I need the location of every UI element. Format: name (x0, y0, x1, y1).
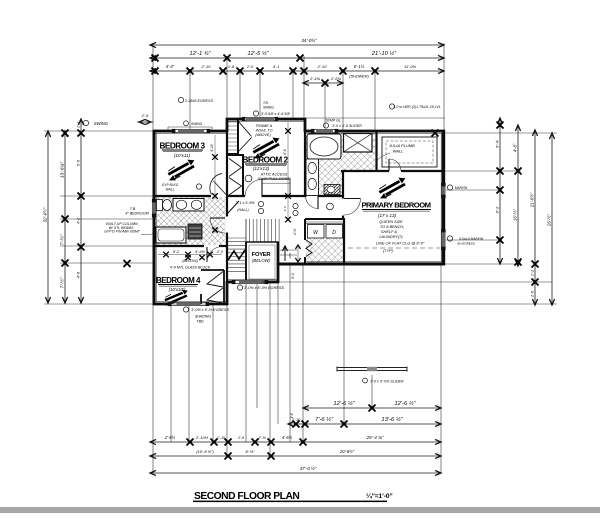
FOYER label (252, 252, 272, 263)
interior wall: foyer west x=246 (245, 242, 247, 282)
page bottom edge shadow (0, 507, 600, 513)
svg-text:3-0 w HDR (2)1.75x11.25 LVL: 3-0 w HDR (2)1.75x11.25 LVL (393, 105, 441, 109)
primary bath shower (344, 134, 373, 153)
svg-text:SWING: SWING (191, 122, 203, 126)
svg-text:2’-0: 2’-0 (216, 250, 223, 254)
svg-text:3’-0½ x 5’-½ EGRESS: 3’-0½ x 5’-½ EGRESS (191, 308, 229, 312)
svg-text:1’-4: 1’-4 (77, 122, 81, 128)
svg-text:7’-6 ½”: 7’-6 ½” (315, 416, 334, 423)
built-up column note (104, 222, 153, 235)
exterior wall inner face lines (155, 132, 227, 134)
bedroom3 ceiling fan arrows icon (165, 158, 199, 183)
svg-text:25’-4 ¾”: 25’-4 ¾” (366, 435, 384, 440)
interior wall: laundry north y=219 (305, 218, 345, 220)
svg-text:5’-½: 5’-½ (495, 139, 500, 147)
svg-text:BEDROOM 4: BEDROOM 4 (156, 276, 201, 285)
laundry bifold door (306, 240, 312, 257)
svg-text:6’-1½: 6’-1½ (354, 64, 365, 69)
svg-text:¼”=1’-0”: ¼”=1’-0” (366, 492, 393, 500)
bath2 door leaf and swing (210, 218, 225, 233)
dimension row top second (150, 50, 444, 62)
stair upper run treads (vertical lines) (250, 219, 280, 242)
bedroom3 closet bifold chevron doors (229, 159, 242, 196)
dormer label (363, 378, 404, 383)
dimension column left inner (77, 119, 85, 303)
svg-text:ATTIC ACCESS: ATTIC ACCESS (260, 173, 288, 177)
PRIMARY BEDROOM label (361, 201, 431, 219)
svg-text:4’-6: 4’-6 (77, 271, 81, 278)
primary bath door leaf and swing (306, 196, 319, 209)
dormer window on roof below (337, 367, 407, 372)
dimension row bottom A (12-6 / 12-6) (303, 400, 441, 412)
extra tick on left extension y=263 (124, 260, 131, 267)
svg-text:7’-½”: 7’-½” (59, 234, 66, 245)
bedroom2 door leaf and swing (245, 180, 262, 197)
egress label below bedroom4 (183, 307, 229, 324)
bedroom3 door leaf and swing (210, 174, 226, 195)
bath2 toilet (157, 200, 172, 211)
small stacked ticks left of row B (290, 413, 300, 427)
exterior wall: bedroom3 top (window gap) (153, 130, 173, 133)
washer box (308, 225, 325, 239)
svg-text:20’-8½”: 20’-8½” (339, 449, 355, 454)
primary bath vanity with two sinks (306, 159, 319, 196)
svg-text:16’-½”: 16’-½” (513, 208, 518, 220)
bath window above tub (311, 129, 338, 133)
svg-text:GYP’D FIN ABV BSMT: GYP’D FIN ABV BSMT (104, 230, 141, 234)
svg-text:SH EGRESS: SH EGRESS (457, 242, 475, 246)
exterior wall: jog bedroom4 east (226, 281, 229, 305)
svg-text:SECOND FLOOR PLAN: SECOND FLOOR PLAN (194, 491, 299, 502)
svg-text:4’-6½: 4’-6½ (195, 250, 205, 254)
exterior wall: jog bed2/bath (304, 118, 307, 132)
dimension row bottom E overall 37-0 (150, 465, 441, 476)
primary bath tiled floor hatch upper (306, 133, 375, 171)
primary bedroom ceiling fan arrows icon (376, 176, 410, 201)
interior wall: bed3 closet east x=243 (242, 154, 244, 197)
interior wall: bed2 closet east x=238 (237, 119, 239, 154)
svg-text:1’-2: 1’-2 (531, 270, 535, 276)
window label above bedroom2 (253, 101, 290, 116)
corridor circled outlet symbols (258, 201, 333, 215)
primary bedroom notes (379, 219, 404, 239)
BEDROOM 3 label (159, 142, 205, 159)
exterior wall: bath+wic top (window gap) (304, 130, 312, 133)
svg-text:(HALL): (HALL) (237, 208, 248, 212)
svg-text:2’-10½: 2’-10½ (195, 435, 209, 440)
left side notes (125, 207, 149, 216)
dryer box (326, 225, 343, 239)
title: SECOND FLOOR PLAN (193, 491, 393, 502)
stair lower run treads (horizontal lines) (228, 238, 247, 271)
interior wall: bed2 closet bottom (227, 153, 239, 155)
exterior wall: jog bed3/bed2 (226, 118, 229, 132)
dimension row bottom C (many ticks) (150, 435, 441, 446)
right window label 2 (447, 236, 483, 246)
svg-text:34’-0½”: 34’-0½” (301, 37, 317, 43)
laundry shelf line (306, 221, 343, 223)
bedroom2 attic access note (257, 173, 291, 182)
bedroom2 closet shelf rungs (228, 122, 237, 150)
stair landing divider (245, 219, 247, 242)
wic shelving box (382, 137, 437, 167)
dimension column left outer 32-0 (43, 131, 51, 303)
svg-text:11’-0½: 11’-0½ (404, 64, 417, 69)
bedroom2 closet double doors (239, 122, 252, 152)
svg-text:2’-6: 2’-6 (237, 436, 245, 440)
interior wall: bath leg south y=196 (door gap) (305, 195, 307, 197)
svg-text:MARVIN: MARVIN (455, 186, 468, 190)
svg-text:8’-6: 8’-6 (283, 149, 287, 155)
svg-text:TBD: TBD (196, 320, 204, 324)
svg-text:3’-6: 3’-6 (290, 413, 294, 419)
primary bath tub (307, 134, 341, 159)
extension lines: thin construction/extension lines (44, 43, 557, 473)
header label above wic (389, 104, 440, 109)
bedroom4 window (168, 302, 209, 306)
swing label above bedroom3 window (184, 121, 203, 126)
svg-text:GYP BLKG: GYP BLKG (162, 183, 179, 187)
svg-text:4’-6”: 4’-6” (513, 143, 518, 152)
vaulted ceiling break dashed line (348, 247, 440, 249)
svg-text:2’-6: 2’-6 (141, 113, 149, 118)
svg-text:PRIMARY BEDROOM: PRIMARY BEDROOM (361, 201, 430, 210)
svg-text:5’-2: 5’-2 (173, 250, 180, 254)
bath2 tub (156, 227, 186, 243)
flat ceiling note (376, 241, 425, 254)
primary bedroom east window 1 (441, 183, 445, 198)
svg-text:SWING: SWING (263, 105, 274, 109)
bath2 glass block window on left wall (152, 199, 156, 217)
svg-text:2’-0: 2’-0 (246, 65, 254, 69)
interior wall: laundry east x=344 (343, 219, 345, 264)
interior wall: bed2/bath x=305 (304, 131, 306, 197)
svg-text:2-2646 EGRESS: 2-2646 EGRESS (184, 99, 213, 103)
svg-text:14R: 14R (288, 252, 292, 258)
bedroom2 frame note (255, 124, 272, 137)
interior wall: wic west x=376 (375, 131, 377, 171)
bath2 tiled floor hatch (156, 197, 226, 245)
primary bath tiled floor hatch lower leg (306, 170, 342, 196)
svg-text:4” BEDROOM: 4” BEDROOM (125, 212, 149, 216)
bedroom2 window (242, 117, 278, 121)
svg-text:2’-10: 2’-10 (201, 64, 212, 69)
svg-text:5’-0: 5’-0 (291, 273, 295, 279)
svg-text:4’-2: 4’-2 (77, 217, 81, 224)
svg-text:(10’x11): (10’x11) (174, 153, 191, 158)
exterior wall: foyer south (egress window gaps) (226, 281, 233, 284)
primary bedroom east window 2 (441, 229, 445, 250)
svg-text:TEMP GL: TEMP GL (325, 119, 341, 123)
bedroom3 notes (162, 183, 202, 192)
bedroom4 ceiling fan arrows icon (163, 289, 190, 307)
svg-text:12’-6 ½”: 12’-6 ½” (333, 400, 355, 407)
svg-text:LAUNDRY(?): LAUNDRY(?) (379, 234, 403, 239)
exterior wall: bedroom4 bottom (window gap) (153, 303, 169, 306)
svg-text:3’-0 x 5’-0½ SLIDER: 3’-0 x 5’-0½ SLIDER (370, 380, 404, 384)
svg-text:(10’-8 ½”): (10’-8 ½”) (196, 449, 214, 454)
foyer open shaft box (246, 242, 278, 282)
svg-text:12’-6 ½”: 12’-6 ½” (394, 400, 416, 407)
svg-text:13’-6 ½”: 13’-6 ½” (381, 416, 403, 423)
dimension column right 3 (530, 130, 539, 305)
bath2 small marks (185, 255, 204, 260)
dimension row top fourth partial (303, 76, 343, 87)
svg-text:32’-0½”: 32’-0½” (43, 207, 48, 222)
hall note right (293, 229, 301, 262)
bedroom3 window RO dim line (168, 127, 212, 131)
wic door leaf and swing (389, 159, 401, 171)
dimension row bottom B (7-6 / 13-6) (288, 416, 441, 428)
dimension column right 1 (495, 118, 504, 264)
svg-text:2’-6¾: 2’-6¾ (330, 76, 342, 81)
dimension row top third (150, 64, 444, 79)
stair break squiggle (228, 250, 245, 260)
bedroom3 window (172, 129, 210, 133)
svg-text:3’-0 5/8 x 4’-6 5/8: 3’-0 5/8 x 4’-6 5/8 (261, 112, 290, 116)
svg-text:4’-1: 4’-1 (273, 64, 280, 69)
bath2 double vanity (173, 199, 204, 212)
svg-text:(17 x 13): (17 x 13) (378, 213, 397, 218)
svg-text:INSUL TO: INSUL TO (256, 129, 273, 133)
hall dims (212, 193, 254, 233)
BEDROOM 4 label (156, 276, 201, 292)
exterior wall: south wall of primary bedroom (window + door gaps) (277, 263, 445, 266)
bedroom2 ceiling fan arrows icon (250, 136, 284, 161)
interior wall: bed3 closet top (227, 154, 244, 156)
bedroom4 closet chevron doors (207, 272, 223, 304)
interior wall: bath leg east + bedroom west x=343 (door gap) (342, 170, 344, 199)
svg-text:WALL: WALL (393, 149, 404, 154)
svg-text:8’-½”: 8’-½” (245, 449, 255, 454)
svg-text:12’-5 ½”: 12’-5 ½” (247, 50, 269, 57)
label B swing top-left (83, 120, 108, 126)
svg-text:3’-½: 3’-½ (258, 436, 266, 440)
exterior wall: left wall (153, 130, 156, 305)
dimension row bottom D (150, 449, 441, 460)
svg-text:21’-10 ½”: 21’-10 ½” (371, 50, 398, 57)
bath2 linen dark shelves (188, 224, 202, 239)
wic plumb wall note (378, 143, 416, 160)
svg-text:37’-0 ½”: 37’-0 ½” (300, 465, 317, 471)
svg-text:(BELOW): (BELOW) (252, 258, 271, 263)
svg-text:13’-6¾”: 13’-6¾” (60, 161, 66, 178)
svg-text:(11’x13): (11’x13) (253, 166, 270, 171)
laundry floor hatch (306, 238, 343, 262)
svg-text:BEDROOM 3: BEDROOM 3 (159, 142, 205, 151)
interior wall: bath2 south y=246 (154, 245, 204, 247)
svg-text:1’-8: 1’-8 (228, 65, 235, 69)
svg-text:WALL: WALL (166, 188, 175, 192)
svg-text:6’-10: 6’-10 (210, 144, 214, 151)
svg-text:(SHOWER): (SHOWER) (349, 75, 369, 79)
svg-text:12’-1 ¾”: 12’-1 ¾” (189, 51, 211, 57)
svg-text:21’-6½”: 21’-6½” (530, 192, 535, 208)
dimension row top overall 34-0 (150, 37, 444, 48)
primary bedroom entry door (344, 199, 361, 216)
svg-text:4’-6½: 4’-6½ (282, 435, 293, 440)
interior wall: bedroom4 closet (201, 269, 224, 271)
tempered glass slider label (323, 119, 362, 129)
attic ladder nook arrow (280, 246, 297, 261)
svg-text:3’-0: 3’-0 (283, 206, 287, 211)
svg-text:(ABOVE): (ABOVE) (255, 133, 271, 137)
svg-text:2’-8½: 2’-8½ (164, 435, 176, 440)
primary bath toilet (324, 185, 340, 195)
svg-text:FRAME &: FRAME & (256, 124, 273, 128)
top-left mini dimension row (137, 113, 153, 125)
svg-text:D: D (332, 230, 336, 236)
interior wall: bedrooms south y=196 (door gaps) (154, 195, 211, 197)
svg-text:2’-6: 2’-6 (531, 291, 535, 298)
svg-text:1’-10: 1’-10 (217, 436, 226, 440)
svg-text:2’-10: 2’-10 (317, 64, 328, 69)
svg-text:6-0x4-6 MARVIN: 6-0x4-6 MARVIN (459, 237, 484, 241)
interior wall: bed3/closet/hall spine x=227 (226, 132, 228, 217)
svg-text:26’-½”: 26’-½” (547, 213, 552, 226)
BEDROOM 2 label (242, 156, 288, 172)
svg-text:BEDROOM 2: BEDROOM 2 (242, 156, 288, 165)
svg-text:T.B.: T.B. (130, 207, 136, 211)
svg-text:3’-0 x 4’-6 SLIDER: 3’-0 x 4’-6 SLIDER (332, 124, 362, 128)
dimension column left middle (59, 130, 69, 304)
svg-text:4’-½: 4’-½ (293, 229, 297, 236)
bedroom4 entry door leaf and swing (207, 247, 223, 263)
bedroom2 bed (262, 179, 290, 197)
svg-text:30x30 PULL-DOWN: 30x30 PULL-DOWN (257, 177, 291, 181)
svg-text:SHADING: SHADING (195, 315, 212, 319)
svg-text:2’-4¾: 2’-4¾ (309, 76, 321, 81)
bedroom4 interior dim rows (158, 250, 223, 257)
bedroom2 ceiling fan circle (245, 175, 252, 182)
svg-text:SWING: SWING (94, 121, 109, 126)
svg-text:(TYP): (TYP) (383, 249, 394, 253)
svg-text:JULIA PLUMB: JULIA PLUMB (388, 143, 415, 148)
interior wall: bath/bedroom north y=171 (wic door gap) (341, 170, 389, 172)
svg-text:3’-0½ x 5’-0½ EGRESS: 3’-0½ x 5’-0½ EGRESS (244, 286, 284, 290)
bedroom3 interior dim (210, 135, 218, 195)
svg-text:7’-½”: 7’-½” (59, 277, 66, 288)
exterior wall: jog foyer east (277, 242, 280, 283)
window label above bedroom3 (178, 97, 213, 103)
interior wall: laundry west x=305 (bifold gap) (304, 219, 306, 240)
exterior wall: bedroom2 top (window gap) (226, 118, 243, 121)
dimension column right 2 (513, 125, 522, 266)
right window label 1 (447, 185, 467, 190)
svg-text:4’-6 MTL GLASS BLOCK: 4’-6 MTL GLASS BLOCK (170, 266, 211, 270)
tick on wic top wall (432, 130, 439, 137)
svg-text:6’-2: 6’-2 (495, 206, 500, 213)
exterior wall: right wall (two window gaps) (442, 130, 445, 184)
svg-text:(10’x10’): (10’x10’) (169, 287, 186, 292)
egress label below foyer (237, 285, 284, 290)
bedroom2 interior dim (283, 122, 291, 222)
svg-text:LINE OF FLAT CLG @ 8’-0”: LINE OF FLAT CLG @ 8’-0” (376, 241, 425, 246)
dimension column right 4 overall (547, 133, 555, 305)
hall door leaf diagonal (227, 201, 239, 214)
svg-text:6’-6: 6’-6 (77, 159, 81, 166)
foyer egress window (232, 280, 268, 284)
svg-text:4’-0”: 4’-0” (166, 64, 175, 69)
